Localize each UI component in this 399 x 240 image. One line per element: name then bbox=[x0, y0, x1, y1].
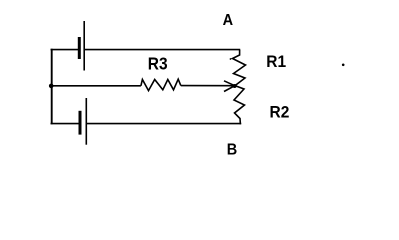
wire: bottom wire left segment bbox=[51, 123, 80, 125]
wire: top wire right segment from battery V1 to resistor network bbox=[85, 49, 240, 51]
wire: left vertical branch bbox=[51, 49, 53, 124]
resistor R3 horizontal zigzag bbox=[141, 79, 181, 90]
battery V2 negative plate (short thick) bbox=[79, 111, 82, 135]
stray pixel left of zigzag top bbox=[230, 58, 232, 60]
wiper arrow head lower barb bbox=[224, 86, 235, 92]
wiper arrow head upper barb bbox=[224, 81, 235, 86]
svg-text:R3: R3 bbox=[148, 55, 168, 74]
battery V1 positive plate (long thin) bbox=[83, 21, 85, 71]
node junction dot on left branch bbox=[49, 84, 54, 89]
wire: top wire left segment to battery V1 bbox=[51, 49, 79, 51]
wire: middle branch from junction to R3 bbox=[51, 85, 141, 87]
svg-text:R2: R2 bbox=[270, 104, 290, 121]
battery V2 positive plate (long thin) bbox=[85, 98, 87, 145]
resistor R1 and R2 vertical zigzag (potentiometer body) bbox=[233, 50, 246, 125]
wire: from R3 to wiper arrow bbox=[181, 85, 235, 87]
svg-text:B: B bbox=[227, 142, 238, 158]
stray dot right of R1 bbox=[342, 64, 345, 67]
battery V1 negative plate (short thick) bbox=[78, 37, 81, 59]
node junction dot at wiper tap bbox=[233, 84, 237, 88]
wire: bottom wire right segment bbox=[87, 123, 241, 125]
svg-text:A: A bbox=[223, 13, 234, 29]
svg-text:R1: R1 bbox=[266, 52, 286, 71]
